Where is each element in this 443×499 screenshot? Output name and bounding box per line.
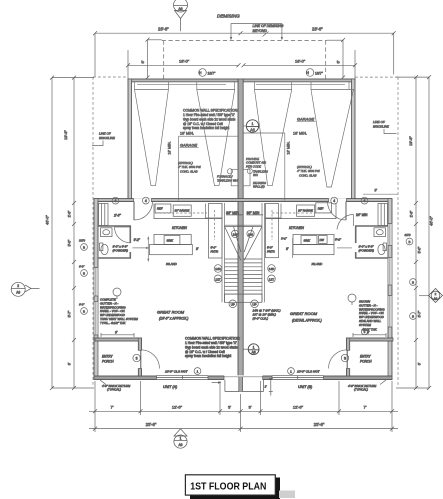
section balloon left <box>11 282 39 296</box>
garage west wall <box>128 79 131 201</box>
powder room right walls <box>355 226 388 258</box>
right wall note tags <box>405 233 413 245</box>
svg-text:DEMISING: DEMISING <box>217 14 240 19</box>
stair treads right <box>243 259 262 294</box>
dim 9'-2" left <box>133 238 150 249</box>
powder room left walls <box>98 226 131 258</box>
svg-text:5'-0": 5'-0" <box>418 246 422 254</box>
stair note <box>253 309 281 321</box>
door tag circle 3 left porch <box>133 354 140 361</box>
label ENTRY PORCH right <box>360 355 372 364</box>
stair circle tag right upper <box>247 230 254 237</box>
note line of brickline right <box>373 120 397 134</box>
dimension 6' vertical left of garage <box>140 38 162 80</box>
label ENTRY PORCH left <box>102 355 114 364</box>
right porch walls <box>347 338 394 376</box>
window west lower <box>94 302 99 336</box>
label DEMISING <box>217 14 240 19</box>
svg-text:UP: UP <box>252 302 256 306</box>
svg-text:4: 4 <box>333 199 335 203</box>
label GARAGE right <box>297 117 316 122</box>
svg-text:UNIT (B): UNIT (B) <box>298 385 312 389</box>
stair circle tag left upper <box>231 230 238 237</box>
svg-text:ISLAND: ISLAND <box>166 262 178 266</box>
svg-text:GREAT ROOM: GREAT ROOM <box>290 311 318 316</box>
svg-text:2: 2 <box>435 292 437 296</box>
svg-text:4: 4 <box>145 199 147 203</box>
dimension 6' vertical right of garage <box>327 38 345 80</box>
svg-text:1': 1' <box>265 385 268 389</box>
powder label right <box>359 245 375 253</box>
svg-text:COMMON WALL SPECIFICATION:: COMMON WALL SPECIFICATION: <box>185 337 240 341</box>
clearance line left garage <box>168 132 239 201</box>
label LINE OF ROOF BEYOND with bracket arrows <box>230 24 284 41</box>
porch dim 6' left <box>101 331 134 337</box>
svg-text:TYPE... 4x1/2" THK: TYPE... 4x1/2" THK <box>100 321 127 325</box>
garage east wall <box>352 79 355 201</box>
right dimension column inner 19'-8" etc <box>396 75 430 390</box>
powder door right (swings into hall) <box>337 214 354 229</box>
svg-text:Gyp board each side 2x wood st: Gyp board each side 2x wood studs <box>183 117 236 121</box>
window tag diamond right <box>419 289 443 303</box>
svg-text:A6: A6 <box>434 296 438 300</box>
svg-text:WALL(S): WALL(S) <box>253 185 265 189</box>
svg-text:3: 3 <box>136 357 138 361</box>
svg-text:KITCHEN: KITCHEN <box>289 226 304 230</box>
door tag circle 4 left a <box>112 197 119 204</box>
svg-text:7': 7' <box>111 405 114 410</box>
svg-text:GARAGE: GARAGE <box>180 143 197 148</box>
east outer wall <box>388 199 393 380</box>
svg-text:(DETAIL APPROX.): (DETAIL APPROX.) <box>292 319 322 323</box>
stair tag left col a <box>214 265 222 273</box>
garage entry door right unit <box>328 202 347 221</box>
label 36" MIN left <box>226 211 243 215</box>
svg-text:UNIT (A): UNIT (A) <box>163 385 177 389</box>
door tag circle 4 right b <box>361 197 368 204</box>
svg-text:2: 2 <box>17 284 19 288</box>
svg-text:SYSTEM: SYSTEM <box>359 323 371 327</box>
svg-text:(TYPICAL): (TYPICAL) <box>354 388 368 392</box>
bottom dimension row 1 <box>89 381 398 432</box>
kitchen leg pantry right <box>266 204 279 258</box>
island right <box>293 234 334 266</box>
window east 1 <box>388 224 393 246</box>
svg-text:2x6: 2x6 <box>233 232 238 236</box>
svg-text:COMMON WALL SPECIFICATION:: COMMON WALL SPECIFICATION: <box>183 109 238 113</box>
svg-text:2'-6": 2'-6" <box>68 210 72 218</box>
svg-text:1: 1 <box>197 369 199 373</box>
section balloon top <box>174 0 188 31</box>
hall closet wall left <box>206 204 223 219</box>
left porch walls <box>95 338 142 376</box>
svg-text:23'-6": 23'-6" <box>146 422 157 427</box>
stair enclosure walls <box>222 203 265 302</box>
svg-text:B: B <box>412 315 414 319</box>
porch dim 6' right <box>353 331 386 337</box>
svg-text:GARAGE: GARAGE <box>297 117 314 122</box>
svg-text:5'-7": 5'-7" <box>418 310 422 318</box>
svg-text:3: 3 <box>344 357 346 361</box>
garage door jamb lines <box>135 82 350 90</box>
furnace closet left <box>217 169 238 186</box>
svg-text:Gyp board each side 2x wood st: Gyp board each side 2x wood studs <box>185 345 238 349</box>
svg-text:B: B <box>83 272 85 276</box>
garage door panel left <box>137 83 226 85</box>
window west upper <box>94 268 99 297</box>
svg-text:2x6: 2x6 <box>248 232 253 236</box>
svg-text:19'-8": 19'-8" <box>409 136 413 146</box>
svg-text:12'-6": 12'-6" <box>293 405 304 410</box>
svg-text:18' MIN.: 18' MIN. <box>168 141 172 154</box>
svg-text:BRICKLINE: BRICKLINE <box>99 136 116 140</box>
svg-text:46'-0": 46'-0" <box>430 216 434 226</box>
hall closet right <box>378 204 388 226</box>
svg-text:9'-2": 9'-2" <box>134 238 141 242</box>
window front right unit <box>272 375 324 380</box>
stair upper funnel <box>225 225 263 260</box>
svg-text:4: 4 <box>364 199 366 203</box>
common wall specification note garage <box>183 109 238 131</box>
left wall note tags <box>79 239 87 251</box>
svg-text:30" RANGE: 30" RANGE <box>298 209 313 213</box>
svg-text:H: H <box>199 71 202 75</box>
svg-text:KITCHEN: KITCHEN <box>172 226 187 230</box>
kitchen counter right L-shape <box>266 203 337 219</box>
svg-text:A6: A6 <box>179 443 183 447</box>
furnace closet right <box>243 157 268 189</box>
window east 3 <box>388 296 393 328</box>
svg-text:WH: WH <box>253 173 259 177</box>
svg-text:REF: REF <box>157 207 163 211</box>
svg-text:2'-6": 2'-6" <box>113 214 122 218</box>
section balloon bottom <box>174 429 187 448</box>
right dimension column outer <box>396 75 434 390</box>
svg-text:6': 6' <box>68 362 72 365</box>
svg-text:2'-6": 2'-6" <box>410 210 414 218</box>
powder door left <box>115 227 131 243</box>
stair tag right col b <box>268 275 276 283</box>
garage truss V2 <box>197 90 235 186</box>
svg-text:BRICKLINE: BRICKLINE <box>373 124 390 128</box>
stair treads left <box>225 259 239 294</box>
svg-text:1: 1 <box>180 437 182 441</box>
door tag circle right garage door 16/7 <box>306 69 323 77</box>
svg-text:19'-8": 19'-8" <box>64 130 68 140</box>
kitchen counter left L-shape <box>154 204 208 219</box>
garage truss V1 <box>135 90 169 186</box>
west outer wall <box>94 199 99 380</box>
label GARAGE left <box>180 143 199 148</box>
svg-text:3'-1": 3'-1" <box>281 236 288 240</box>
note garage slab left <box>178 161 201 173</box>
svg-text:(3'-6" CLR.): (3'-6" CLR.) <box>253 317 269 321</box>
svg-text:spray foam insulation full hei: spray foam insulation full height <box>185 354 231 358</box>
stair tag bottom left <box>229 300 237 308</box>
svg-text:PORCH: PORCH <box>360 360 372 364</box>
svg-text:6'-0": 6'-0" <box>79 303 85 307</box>
svg-text:3': 3' <box>228 405 231 410</box>
powder sink right <box>374 228 386 237</box>
svg-text:36" MIN: 36" MIN <box>247 211 260 215</box>
window east 2 <box>388 258 393 286</box>
svg-text:10'-0" CLG HGT: 10'-0" CLG HGT <box>297 370 321 374</box>
svg-text:1: 1 <box>253 345 255 349</box>
stoop dim right <box>265 378 273 396</box>
svg-text:6': 6' <box>115 331 118 335</box>
svg-text:5'-0": 5'-0" <box>68 239 72 247</box>
svg-text:PER CODE: PER CODE <box>246 164 261 168</box>
svg-text:3070: 3070 <box>405 233 411 237</box>
garage rear wall <box>94 198 392 202</box>
svg-text:BEYOND: BEYOND <box>253 29 268 33</box>
note garage slab right <box>297 165 320 177</box>
dim 5' right of garage <box>363 189 398 195</box>
svg-text:23'-6": 23'-6" <box>312 26 323 31</box>
svg-text:ENTRY: ENTRY <box>360 355 372 359</box>
svg-text:UP: UP <box>231 302 235 306</box>
demising wall center <box>238 79 243 378</box>
front door opening center <box>224 375 263 380</box>
svg-text:1: 1 <box>290 369 292 373</box>
svg-text:A6: A6 <box>178 7 182 11</box>
dim 5'-2" right <box>335 237 352 248</box>
dimension line 18'-0" right garage <box>242 50 358 79</box>
kitchen leg pantry left <box>209 204 223 259</box>
svg-text:(TYPICAL): (TYPICAL) <box>107 388 121 392</box>
common wall specification note bottom <box>185 337 240 359</box>
svg-text:16/7": 16/7" <box>208 71 217 75</box>
svg-text:A6: A6 <box>252 351 256 355</box>
svg-text:GREAT ROOM: GREAT ROOM <box>157 310 185 315</box>
svg-text:PNTR: PNTR <box>211 250 219 254</box>
svg-text:(POWDER): (POWDER) <box>359 249 375 253</box>
svg-text:5': 5' <box>375 189 378 193</box>
svg-text:LINE OF DEMISING: LINE OF DEMISING <box>253 24 284 28</box>
island dim line left <box>147 237 149 262</box>
garage door panel right <box>256 83 345 85</box>
svg-text:12T: 12T <box>269 277 274 281</box>
island dim line right <box>292 238 294 258</box>
dimension line 18'-0" left garage <box>126 50 241 79</box>
svg-text:3': 3' <box>249 405 252 410</box>
notes block left wall <box>100 288 138 325</box>
svg-text:1ST FLOOR PLAN: 1ST FLOOR PLAN <box>190 480 266 492</box>
ceiling height note left <box>165 368 201 375</box>
clearance line right garage <box>243 131 307 200</box>
svg-text:18'-0": 18'-0" <box>295 59 306 64</box>
svg-text:5'-7": 5'-7" <box>68 310 72 318</box>
powder sink left <box>101 228 113 237</box>
front wall bottom <box>94 375 392 380</box>
dimension line 23'-6" + 23'-6" top <box>93 26 396 76</box>
label GREAT ROOM left <box>157 310 188 321</box>
svg-text:@ 16" O.C. w / Closed Cell: @ 16" O.C. w / Closed Cell <box>183 122 223 126</box>
window front left unit <box>157 375 209 380</box>
svg-text:H: H <box>307 71 310 75</box>
svg-text:SINK: SINK <box>167 239 174 243</box>
door tag circle 4 right a <box>331 197 338 204</box>
right porch entry door <box>329 350 348 369</box>
svg-text:8': 8' <box>196 247 199 251</box>
svg-text:DW: DW <box>320 238 325 242</box>
door tag circle left garage door 16/7 <box>199 69 216 77</box>
stair landing <box>225 294 263 302</box>
svg-text:6': 6' <box>418 362 422 365</box>
svg-text:7': 7' <box>364 405 367 410</box>
powder toilet right <box>378 243 387 255</box>
section tag A6 garage <box>243 120 259 132</box>
label GREAT ROOM right <box>290 311 322 323</box>
svg-text:TANKLESS WH: TANKLESS WH <box>217 178 238 182</box>
label 36" MIN right <box>247 211 264 215</box>
svg-text:24" MIN: 24" MIN <box>356 213 368 217</box>
svg-text:B: B <box>408 240 410 244</box>
svg-text:12'-6": 12'-6" <box>172 405 183 410</box>
hall closet left <box>99 204 109 226</box>
left dimension column inner 19'-8" etc <box>52 76 94 390</box>
svg-text:10'-0" CLG HGT: 10'-0" CLG HGT <box>165 370 189 374</box>
svg-text:@ 16" O.C. w / Closed Cell: @ 16" O.C. w / Closed Cell <box>185 350 225 354</box>
garage truss V4 <box>311 90 354 188</box>
bottom dimension row 2 <box>89 415 398 432</box>
garage entry door left unit <box>134 202 153 221</box>
svg-text:6': 6' <box>140 60 145 63</box>
svg-text:3070: 3070 <box>79 239 85 243</box>
stair tag right col a <box>268 265 276 273</box>
svg-text:spray foam insulation full hei: spray foam insulation full height <box>183 126 229 130</box>
svg-text:6'-0": 6'-0" <box>79 265 85 269</box>
svg-text:18' MIN.: 18' MIN. <box>293 131 307 135</box>
svg-text:SINK: SINK <box>304 239 311 243</box>
svg-text:4: 4 <box>115 199 117 203</box>
powder label left <box>113 245 129 253</box>
stoop leader left <box>212 381 222 383</box>
svg-text:36" MIN: 36" MIN <box>226 211 239 215</box>
svg-text:CONC. SLAB: CONC. SLAB <box>180 169 198 173</box>
island left <box>149 234 192 265</box>
roof line dashed top <box>162 41 327 79</box>
svg-text:1 Hour Fire-rated wall / 5/8": 1 Hour Fire-rated wall / 5/8" type 'X' <box>185 341 237 345</box>
svg-text:23'-6": 23'-6" <box>158 26 169 31</box>
svg-text:8': 8' <box>286 247 289 251</box>
svg-text:B: B <box>412 281 414 285</box>
note line of brickline left <box>92 132 116 146</box>
svg-text:46'-0": 46'-0" <box>46 215 50 225</box>
svg-text:(16'-6" x APPROX.): (16'-6" x APPROX.) <box>159 317 188 321</box>
svg-text:B: B <box>83 246 85 250</box>
svg-text:PORCH: PORCH <box>102 360 114 364</box>
door tag circle 4 left b <box>142 197 149 204</box>
svg-text:(POWDER): (POWDER) <box>113 249 129 253</box>
svg-text:23'-6": 23'-6" <box>314 422 325 427</box>
door tag circle 3 right porch <box>341 354 348 361</box>
ceiling height note right <box>288 368 321 375</box>
svg-text:REF: REF <box>318 207 324 211</box>
svg-text:16/7": 16/7" <box>315 71 324 75</box>
garage truss V3 <box>255 90 292 186</box>
left dimension column outer 46'-0" <box>46 76 95 390</box>
stair tag left col b <box>214 275 222 283</box>
svg-text:PNTR: PNTR <box>267 250 275 254</box>
svg-text:CONC. SLAB: CONC. SLAB <box>299 173 317 177</box>
svg-text:1: 1 <box>252 122 254 126</box>
powder toilet left <box>100 243 109 255</box>
notes block right wall <box>348 294 385 332</box>
roof line dashed right side <box>355 77 398 385</box>
svg-text:18' MIN.: 18' MIN. <box>180 132 194 136</box>
left porch entry door <box>141 350 160 369</box>
svg-text:5'-2": 5'-2" <box>335 237 342 241</box>
stair tag bottom right <box>251 300 259 308</box>
tag circle above right porch <box>361 328 367 334</box>
svg-text:18'-0": 18'-0" <box>179 59 190 64</box>
front stoop center <box>225 377 264 392</box>
svg-text:ENTRY: ENTRY <box>102 355 114 359</box>
svg-text:14R: 14R <box>215 267 221 271</box>
svg-text:A6: A6 <box>16 291 20 295</box>
svg-text:6': 6' <box>336 60 341 63</box>
garage front wall <box>128 79 355 82</box>
brick return note left <box>100 380 131 392</box>
svg-text:ISLAND: ISLAND <box>312 262 324 266</box>
svg-text:1 Hour Fire-rated wall / 5/8": 1 Hour Fire-rated wall / 5/8" type 'X' <box>183 113 235 117</box>
title box 1ST FLOOR PLAN <box>185 475 295 499</box>
section tag A6 bottom <box>243 344 259 355</box>
hall closet wall right <box>265 204 282 219</box>
brick return note right <box>348 380 386 392</box>
svg-text:B: B <box>83 310 85 314</box>
svg-text:14R: 14R <box>269 267 275 271</box>
svg-text:12T: 12T <box>215 277 220 281</box>
svg-text:18' MIN.: 18' MIN. <box>287 141 291 154</box>
svg-text:30" RANGE: 30" RANGE <box>175 209 190 213</box>
roof line dashed left side <box>93 77 128 385</box>
svg-text:A6: A6 <box>250 128 254 132</box>
